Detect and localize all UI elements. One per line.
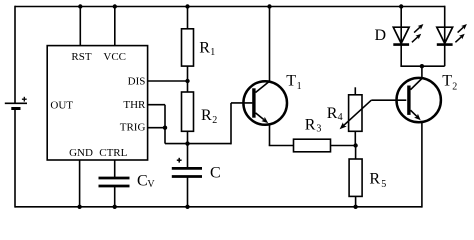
svg-text:R: R	[369, 170, 380, 187]
wire: CV to bottom rail	[114, 186, 116, 207]
wire: battery negative down to bottom rail	[14, 109, 16, 208]
wire: R4 wiper to T2 base	[371, 99, 406, 101]
junction: DIS / R1 / R2 node	[185, 79, 189, 83]
svg-text:DIS: DIS	[128, 75, 146, 87]
label R2	[201, 107, 217, 126]
pin label GND	[69, 147, 93, 159]
wire: VCC pin to top rail	[114, 7, 116, 46]
wire: R2 down to C node	[187, 131, 189, 143]
svg-text:GND: GND	[69, 147, 93, 159]
wire: THR/TRIG node across to T1 base	[165, 103, 252, 144]
wire: T1 emitter down and right to R3	[269, 125, 294, 146]
svg-text:1: 1	[210, 47, 215, 58]
wire: T1 collector to top rail	[269, 7, 271, 82]
resistor R3	[294, 139, 331, 152]
wire: R4 bottom to node	[354, 131, 356, 145]
label C	[210, 165, 221, 182]
wire: R1 to R2	[187, 66, 189, 92]
resistor R1	[182, 29, 194, 66]
junction: R5 on bottom rail	[353, 205, 357, 209]
pin label THR	[123, 99, 146, 111]
junction: LED cathode / T2 collector node	[420, 64, 424, 68]
label R4	[327, 105, 343, 123]
wire: node down to R5	[355, 146, 357, 160]
wire: left LED cathode down to junction wire	[400, 45, 444, 67]
wire: RST pin to top rail	[79, 7, 81, 46]
wire: top positive supply rail	[15, 6, 445, 8]
pin label CTRL	[99, 147, 127, 159]
svg-text:TRIG: TRIG	[120, 121, 146, 133]
svg-text:T: T	[286, 73, 296, 90]
label R3	[305, 117, 322, 135]
capacitor CV	[99, 178, 130, 186]
transistor T2 (NPN)	[397, 78, 441, 122]
LED D2 (right)	[437, 24, 467, 45]
label T1	[286, 73, 301, 92]
wire: THR down to TRIG node	[164, 105, 166, 144]
capacitor C	[172, 158, 202, 177]
wire: left branch from top rail down to battery positive	[14, 6, 16, 104]
junction: GND on bottom rail	[77, 205, 81, 209]
label R5	[369, 170, 386, 190]
svg-text:R: R	[199, 39, 210, 56]
junction: RST on top rail	[78, 4, 82, 8]
pin label RST	[71, 51, 91, 63]
svg-text:V: V	[147, 179, 155, 190]
svg-text:2: 2	[452, 81, 457, 92]
wire: T2 collector up to LED junction	[421, 66, 423, 78]
wire: DIS stub to R1/R2 junction	[148, 80, 188, 82]
svg-text:R: R	[327, 105, 338, 122]
svg-text:R: R	[305, 117, 316, 134]
svg-text:RST: RST	[71, 51, 91, 63]
junction: C top node	[185, 141, 189, 145]
wire: THR stub	[148, 104, 165, 106]
label CV	[137, 172, 155, 190]
wire: C node down to capacitor C	[187, 144, 189, 167]
junction: LED branch on top rail	[399, 4, 403, 8]
wire: R3 to R4/R5 node	[331, 145, 356, 147]
resistor R5	[349, 159, 362, 196]
svg-text:CTRL: CTRL	[99, 147, 127, 159]
pin label TRIG	[120, 121, 146, 133]
wire: top rail down to left LED anode	[400, 7, 402, 45]
junction: T1 collector on top rail	[267, 4, 271, 8]
wire: CTRL pin to capacitor CV	[114, 160, 116, 178]
svg-text:5: 5	[381, 179, 386, 190]
LED D (left)	[393, 24, 423, 45]
wire: top rail to R1	[187, 7, 189, 29]
wire: right LED cathode down to junction wire	[444, 45, 446, 67]
svg-text:3: 3	[316, 124, 321, 135]
junction: R1 on top rail	[185, 4, 189, 8]
svg-text:VCC: VCC	[103, 51, 126, 63]
resistor R4 (potentiometer)	[340, 87, 372, 131]
resistor R2	[182, 92, 194, 131]
wire: C to bottom rail	[187, 177, 189, 207]
pin label DIS	[128, 75, 146, 87]
pin label VCC	[103, 51, 126, 63]
svg-text:1: 1	[297, 81, 302, 92]
junction: CV on bottom rail	[113, 205, 117, 209]
wire: T2 emitter down to bottom rail	[421, 122, 423, 208]
svg-text:R: R	[201, 107, 212, 124]
label T2	[442, 72, 457, 92]
svg-text:2: 2	[212, 115, 217, 126]
svg-text:THR: THR	[123, 99, 146, 111]
svg-text:4: 4	[338, 112, 343, 123]
label R1	[199, 39, 215, 58]
junction: R3/R4/R5 node	[353, 143, 357, 147]
svg-text:OUT: OUT	[50, 99, 73, 111]
svg-text:D: D	[375, 27, 387, 44]
pin label OUT	[50, 99, 73, 111]
wire: bottom ground rail	[15, 206, 422, 208]
label D	[375, 27, 387, 44]
IC U1 555 timer body	[47, 46, 147, 160]
transistor T1 (NPN)	[243, 81, 287, 125]
junction: THR/TRIG node	[163, 126, 167, 130]
junction: VCC on top rail	[113, 4, 117, 8]
junction: C on bottom rail	[185, 205, 189, 209]
svg-text:C: C	[210, 165, 221, 182]
wire: R5 to bottom rail	[355, 196, 357, 206]
battery B1	[5, 97, 27, 109]
svg-text:C: C	[137, 172, 148, 189]
svg-text:T: T	[442, 72, 452, 89]
wire: top rail corner down to right LED anode	[444, 6, 446, 45]
wire: TRIG stub	[148, 127, 165, 129]
wire: GND pin to bottom rail	[79, 160, 81, 207]
